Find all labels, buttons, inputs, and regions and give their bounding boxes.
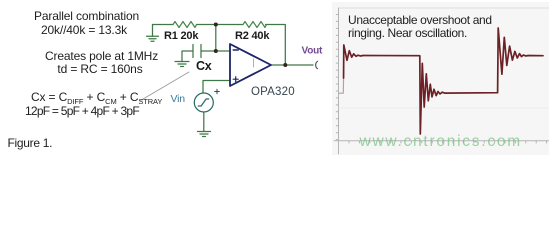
svg-text:R2 40k: R2 40k — [235, 30, 270, 42]
svg-text:Vin: Vin — [171, 93, 186, 105]
svg-text:Vout: Vout — [302, 46, 324, 57]
svg-text:R1 20k: R1 20k — [164, 30, 199, 42]
svg-text:Cx: Cx — [196, 59, 212, 73]
svg-text:OPA320: OPA320 — [251, 86, 295, 98]
